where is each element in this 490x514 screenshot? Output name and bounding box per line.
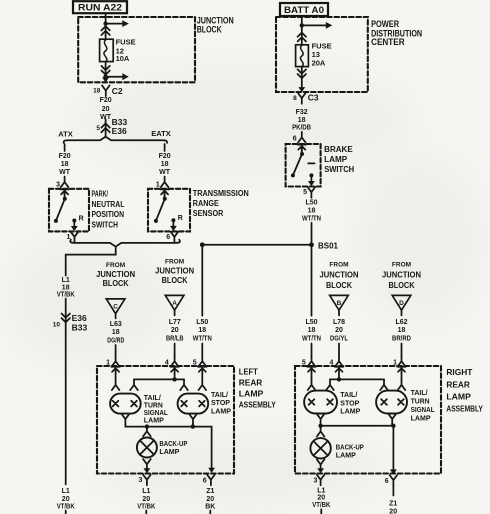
wire F20 20 WT [100, 97, 112, 121]
svg-text:L78: L78 [333, 319, 345, 326]
svg-text:F32: F32 [296, 109, 308, 116]
svg-text:6: 6 [166, 234, 170, 241]
wire label L50 18 WT/TN right [302, 319, 321, 343]
lamp tail/stop left [178, 394, 209, 414]
wire label Z1 20 pin6 right [389, 501, 397, 514]
connector pin 1 right assembly [393, 356, 405, 367]
svg-text:6: 6 [385, 478, 389, 485]
wire pin4 branch [134, 374, 184, 380]
wire L63 to lamp pin 1 [115, 345, 117, 356]
wire label F20 18 WT right [159, 153, 171, 176]
svg-text:1: 1 [156, 182, 160, 189]
node junction block bus tap top [103, 21, 107, 25]
svg-text:E36: E36 [112, 126, 127, 136]
svg-text:WT/TN: WT/TN [193, 335, 212, 342]
wire ATX branch [64, 144, 66, 151]
park/neutral position switch enclosure [49, 189, 89, 232]
switch S3 output contact [308, 173, 315, 186]
svg-text:L77: L77 [169, 319, 181, 326]
wire PDC bus arrow [302, 22, 333, 29]
svg-text:TRANSMISSION: TRANSMISSION [193, 189, 249, 198]
wire label L1 18 VT/BK [57, 277, 75, 299]
wire pin5 to tail/stop lamp [199, 374, 207, 390]
svg-text:C2: C2 [112, 86, 123, 96]
switch S3 brake blade [291, 152, 315, 177]
wire pin3 right page exit [320, 509, 322, 514]
connector pin 3 right assembly [313, 475, 324, 486]
svg-text:JUNCTION: JUNCTION [320, 269, 359, 279]
wire pin1 to tail/turn lamp [112, 374, 120, 390]
svg-text:FROM: FROM [329, 261, 348, 268]
wire label L50 18 WT/TN upper [302, 199, 321, 222]
svg-text:Z1: Z1 [206, 488, 214, 495]
svg-text:8: 8 [293, 95, 297, 102]
wire pin4 branch right [330, 374, 384, 380]
connector above back-up lamp right [317, 426, 325, 437]
connector C3 pin 8 [293, 93, 319, 104]
label back-up lamp right [336, 443, 364, 460]
svg-text:A: A [172, 300, 177, 307]
svg-text:18: 18 [398, 327, 406, 334]
svg-text:L1: L1 [142, 488, 150, 495]
wire to switch blade [64, 193, 66, 197]
wire L77 to lamp pin 4 [174, 344, 176, 357]
connector B33 E36 pin 5 [96, 117, 127, 136]
label park/neutral position switch [92, 190, 125, 230]
svg-text:5: 5 [96, 125, 100, 132]
svg-text:WT: WT [59, 169, 71, 176]
wire merge brace to L1 [70, 240, 180, 247]
svg-text:BLOCK: BLOCK [326, 280, 353, 290]
label transmission range sensor [193, 189, 249, 218]
wire split brace ATX/EATX [64, 137, 168, 143]
wire label L62 18 BR/RD [392, 319, 411, 343]
connector pin 5 left assembly [193, 356, 206, 367]
node pin4 branch junction [172, 377, 176, 381]
node tail/turn ground tap right [391, 424, 395, 428]
connector below tail/stop lamp left [189, 414, 197, 425]
connector C2 pin 18 [93, 85, 123, 96]
switch S1 contact R [71, 216, 84, 232]
svg-text:B33: B33 [72, 323, 88, 333]
wire fuse 12 to C2 [105, 62, 107, 77]
svg-text:BR/LB: BR/LB [166, 335, 184, 342]
svg-text:L1: L1 [317, 487, 325, 494]
svg-text:Z1: Z1 [389, 501, 397, 508]
connector pin 1 transmission range sensor [156, 177, 169, 189]
connector below tail/turn lamp left [122, 414, 130, 425]
wire tail/stop lamp to bus [192, 424, 194, 427]
svg-text:F20: F20 [59, 153, 71, 160]
junction block label [197, 15, 234, 34]
connector pin 6 brake lamp switch [293, 132, 306, 143]
switch S2 range sensor blade [154, 197, 167, 223]
svg-text:VT/BK: VT/BK [57, 292, 75, 299]
connector pin 6 below range sensor [166, 232, 178, 243]
svg-text:20: 20 [102, 106, 110, 113]
connector pin 5 below brake switch [303, 187, 315, 198]
svg-text:BATT A0: BATT A0 [284, 5, 324, 16]
svg-text:18: 18 [298, 117, 306, 124]
svg-text:F20: F20 [159, 153, 171, 160]
connector into tail/stop lamp left terminal [180, 379, 188, 390]
svg-text:VT/BK: VT/BK [312, 502, 330, 509]
svg-text:LAMP: LAMP [340, 407, 360, 416]
svg-text:BLOCK: BLOCK [103, 278, 130, 288]
svg-text:WT/TN: WT/TN [302, 216, 321, 223]
wire L50 to lamp pin 5 [201, 344, 203, 357]
connector triangle B [330, 295, 349, 315]
arrow exit PDC [298, 87, 305, 92]
lamp tail/turn signal left [110, 394, 141, 414]
svg-text:LAMP: LAMP [159, 447, 179, 456]
wire pin5 to tail/stop lamp right [308, 374, 316, 390]
connector triangle C [106, 299, 125, 319]
connector entry brake lamp switch [298, 145, 307, 152]
svg-text:20: 20 [206, 496, 214, 503]
svg-text:BS01: BS01 [318, 240, 338, 250]
node pin4 branch junction right [337, 377, 341, 381]
svg-text:ATX: ATX [58, 132, 73, 139]
svg-text:D: D [399, 300, 404, 307]
svg-text:SENSOR: SENSOR [193, 209, 224, 218]
svg-text:LAMP: LAMP [446, 391, 471, 401]
label tail/turn signal lamp left [144, 393, 168, 425]
svg-text:3: 3 [313, 477, 317, 484]
svg-text:DG/RD: DG/RD [107, 337, 124, 344]
lamp tail/turn signal right [376, 391, 407, 414]
switch S2 contact R [170, 215, 183, 231]
hot-at-all-times feed BATT A0 [280, 3, 328, 16]
svg-text:POSITION: POSITION [92, 210, 125, 219]
junction block enclosure [78, 17, 195, 82]
connector into tail/turn lamp right terminal [130, 379, 138, 390]
svg-text:6: 6 [203, 477, 207, 484]
svg-text:LAMP: LAMP [411, 413, 431, 422]
svg-text:LAMP: LAMP [336, 451, 356, 460]
wire label L77 20 BR/LB [166, 319, 184, 343]
wire label L1 20 VT/BK bottom left [57, 488, 75, 511]
wire tail/turn lamp to bus right [391, 424, 393, 426]
svg-text:EATX: EATX [151, 131, 171, 138]
wire label Z1 20 BK pin6 left [205, 488, 215, 511]
fuse F12 [100, 39, 114, 61]
label tail/stop lamp right [340, 390, 360, 416]
svg-text:NEUTRAL: NEUTRAL [92, 200, 125, 209]
label right rear lamp assembly [446, 367, 483, 414]
svg-text:L1: L1 [62, 488, 70, 495]
label tail/stop lamp left [211, 390, 231, 416]
svg-text:18: 18 [112, 329, 120, 336]
connector pin 3 left assembly [138, 475, 150, 486]
wire RUN A22 to junction block [105, 13, 107, 17]
label from junction block D [382, 261, 421, 290]
connector above back-up lamp left [143, 426, 151, 437]
lamp tail/stop right [304, 391, 337, 414]
label left rear lamp assembly [239, 367, 276, 410]
svg-text:R: R [178, 215, 183, 222]
svg-text:C3: C3 [308, 93, 319, 103]
wire pin1 to tail/turn lamp right [398, 374, 406, 390]
connector pin 1 below park/neutral switch [66, 232, 78, 243]
svg-text:6: 6 [293, 136, 297, 143]
wire L62 to right lamp pin 1 [401, 344, 403, 357]
connector entries left assembly pins 1 4 5 [111, 367, 206, 374]
wire fuse 13 to C3 [301, 67, 303, 88]
wire BATT A0 into fuse 13 [301, 16, 303, 45]
connector entries right assembly pins 5 4 1 [307, 367, 406, 374]
svg-text:RUN A22: RUN A22 [78, 3, 122, 14]
connector pin 6 right assembly [385, 475, 398, 486]
svg-text:5: 5 [303, 189, 307, 196]
transmission range sensor enclosure [148, 189, 190, 232]
svg-text:REAR: REAR [239, 378, 262, 388]
hot-in-run feed RUN A22 [73, 1, 127, 14]
svg-text:BLOCK: BLOCK [389, 280, 416, 290]
connector below back-up lamp left [143, 459, 151, 473]
wire label L50 18 WT/TN left [193, 319, 212, 343]
wire bus arrow bottom [106, 73, 129, 80]
connector into tail/turn lamp left terminal [380, 379, 388, 390]
wire L1 down to connector [65, 299, 67, 331]
label from junction block B [320, 261, 359, 290]
lamp back-up right [310, 438, 330, 458]
connector pin 4 left assembly [165, 356, 179, 367]
svg-text:DG/YL: DG/YL [330, 335, 349, 342]
svg-text:LAMP: LAMP [144, 415, 164, 424]
svg-text:POWER: POWER [371, 19, 399, 29]
svg-text:L1: L1 [62, 277, 70, 284]
svg-text:L62: L62 [395, 319, 407, 326]
power distribution center label [371, 19, 422, 47]
svg-text:20A: 20A [312, 58, 326, 67]
svg-text:VT/BK: VT/BK [137, 504, 155, 511]
wire L50 left drop [201, 245, 203, 316]
svg-text:F20: F20 [100, 97, 112, 104]
connector entry transmission range sensor [160, 189, 169, 196]
power distribution center enclosure [276, 17, 368, 92]
connector pin 3 park/neutral switch [56, 177, 68, 189]
arrow exit pin 6 left assembly [208, 468, 215, 473]
wire label L78 20 DG/YL [330, 319, 349, 343]
svg-text:WT: WT [159, 169, 171, 176]
wire EATX branch [164, 144, 166, 151]
svg-text:BK: BK [205, 504, 215, 511]
connector E36 B33 pin 10 [53, 313, 88, 332]
svg-text:JUNCTION: JUNCTION [382, 269, 421, 279]
connector pin 5 right assembly [302, 356, 315, 367]
label from junction block A [155, 259, 194, 285]
svg-text:3: 3 [138, 477, 142, 484]
connector entry park/neutral switch [60, 189, 69, 196]
wire pin6 left page exit [209, 511, 211, 514]
node junction block bus tap bottom [103, 75, 107, 79]
node tail/stop ground tap [191, 424, 195, 428]
right rear lamp assembly enclosure [295, 366, 441, 474]
svg-text:WT/TN: WT/TN [302, 335, 321, 342]
wire L78 to right lamp pin 4 [338, 344, 340, 357]
fuse F13 [296, 45, 309, 67]
label tail/turn signal lamp right [411, 388, 435, 423]
svg-text:10: 10 [53, 321, 61, 328]
svg-text:PARK/: PARK/ [92, 190, 109, 199]
label fuse 12 10A [116, 38, 136, 63]
svg-text:18: 18 [161, 161, 169, 168]
left rear lamp assembly enclosure [97, 366, 234, 474]
svg-text:20: 20 [335, 327, 343, 334]
wire label L1 20 VT/BK pin3 right [312, 487, 330, 509]
wire L50 to BS01 [311, 223, 313, 245]
svg-text:LAMP: LAMP [239, 389, 264, 399]
svg-text:BR/RD: BR/RD [392, 335, 411, 342]
connector chevrons below fuse 12 [101, 66, 109, 75]
wire to sensor blade [164, 193, 166, 197]
connector below back-up lamp right [317, 459, 325, 473]
wire pin6 right to label [392, 486, 394, 496]
svg-text:LAMP: LAMP [324, 155, 348, 164]
svg-text:20: 20 [171, 327, 179, 334]
connector triangle A [165, 295, 184, 315]
wire ground bus left assembly [125, 424, 211, 468]
svg-text:L63: L63 [110, 321, 122, 328]
svg-text:BLOCK: BLOCK [197, 25, 222, 35]
svg-text:SWITCH: SWITCH [324, 165, 354, 174]
svg-text:18: 18 [308, 207, 316, 214]
connector chevrons below fuse 13 [298, 69, 306, 78]
connector into tail/stop lamp right terminal [326, 379, 334, 390]
label fuse 13 20A [312, 41, 332, 67]
node PDC bus tap [300, 23, 304, 27]
svg-text:L50: L50 [305, 319, 317, 326]
svg-text:L50: L50 [305, 199, 317, 206]
svg-text:BLOCK: BLOCK [162, 275, 189, 285]
svg-text:RIGHT: RIGHT [446, 367, 473, 377]
wire pin3 left page exit [145, 511, 147, 514]
svg-text:CENTER: CENTER [371, 37, 405, 47]
svg-text:18: 18 [198, 327, 206, 334]
svg-text:LEFT: LEFT [239, 367, 259, 377]
svg-text:18: 18 [62, 284, 70, 291]
svg-text:ASSEMBLY: ASSEMBLY [239, 400, 276, 410]
svg-text:BRAKE: BRAKE [324, 145, 353, 154]
brake lamp switch enclosure [286, 144, 321, 187]
svg-text:10A: 10A [116, 54, 130, 63]
label back-up lamp left [159, 439, 187, 456]
connector below tail/turn lamp right [388, 414, 396, 425]
svg-text:SWITCH: SWITCH [92, 221, 119, 230]
arrow exit pin 6 right assembly [390, 469, 397, 474]
connector pin 1 left assembly [106, 356, 119, 367]
svg-text:18: 18 [61, 161, 69, 168]
switch S1 park/neutral blade [54, 197, 67, 223]
wire L50 to right lamp pin 5 [311, 344, 313, 357]
wire label L1 20 VT/BK pin3 left [137, 488, 155, 511]
svg-text:REAR: REAR [446, 379, 470, 389]
node BS01 splice [200, 240, 338, 250]
wire to brake switch blade [301, 149, 303, 153]
node backup lamp tap right [318, 424, 322, 428]
svg-text:ASSEMBLY: ASSEMBLY [446, 403, 483, 413]
wire into fuse 12 [105, 17, 107, 39]
lamp back-up left [137, 438, 157, 458]
svg-text:L50: L50 [196, 319, 208, 326]
wire bus arrow top [106, 20, 129, 27]
svg-text:3: 3 [56, 182, 60, 189]
wire ground bus right assembly [321, 424, 394, 470]
svg-text:20: 20 [317, 495, 325, 502]
wire label F20 18 WT left [59, 153, 71, 176]
wire label L63 18 DG/RD [107, 321, 124, 344]
connector below tail/stop lamp right [317, 414, 325, 425]
label brake lamp switch [324, 145, 354, 174]
label from junction block C [96, 262, 135, 288]
connector triangle D [392, 295, 411, 315]
svg-text:18: 18 [308, 327, 316, 334]
connector chevrons above fuse 12 [101, 26, 109, 35]
wire L1 long run to bottom [65, 330, 67, 485]
svg-text:20: 20 [142, 496, 150, 503]
svg-text:FROM: FROM [392, 261, 411, 268]
svg-text:PK/DB: PK/DB [292, 125, 311, 132]
wire label F32 18 PK/DB [292, 109, 311, 132]
svg-text:B: B [337, 300, 342, 307]
connector pin 4 right assembly [329, 356, 342, 367]
connector chevrons above fuse 13 [298, 33, 306, 42]
svg-text:C: C [113, 304, 118, 311]
svg-text:20: 20 [62, 496, 70, 503]
node backup lamp tap [145, 424, 149, 428]
svg-text:RANGE: RANGE [193, 199, 220, 208]
wire L50 right drop [311, 245, 313, 316]
connector pin 6 left assembly [203, 475, 215, 486]
svg-text:R: R [79, 216, 84, 223]
wire brace tail to left rail [66, 247, 116, 276]
svg-text:LAMP: LAMP [211, 406, 231, 415]
svg-text:20: 20 [389, 509, 397, 514]
arrow exit junction block [102, 77, 109, 82]
wire L1 page exit [65, 511, 67, 514]
svg-text:18: 18 [93, 88, 101, 95]
svg-text:VT/BK: VT/BK [57, 504, 75, 511]
